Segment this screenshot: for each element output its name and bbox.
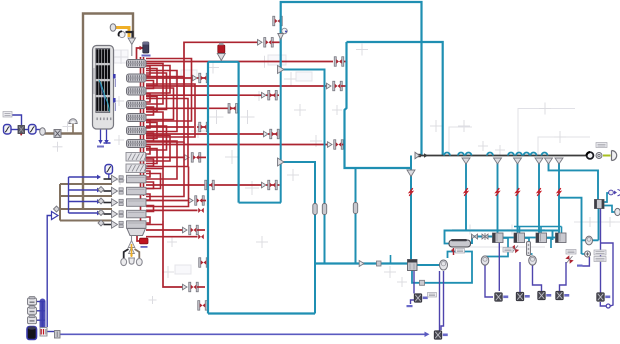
wire brown dome stem [72, 123, 74, 134]
wire teal drop e4 [538, 158, 540, 233]
wire red L8 [146, 129, 280, 139]
valve Z2 red on teal drop [464, 188, 468, 196]
wire red L7 [146, 122, 208, 132]
valve icon blue above rows [105, 165, 113, 175]
wire blue row 3 [69, 199, 102, 204]
wire purple blockE product [411, 271, 415, 305]
wire red navy block feed [137, 46, 144, 62]
wire teal main right loop [347, 42, 443, 155]
wire red L14 lower branch [163, 221, 205, 292]
hatched block H1 [126, 153, 148, 162]
wire teal riser mid segment [280, 70, 282, 203]
wire teal bus stubs [514, 227, 562, 234]
funnel into dark header [415, 152, 420, 158]
splitter block B1 [54, 130, 61, 138]
wire teal to plus pump [582, 253, 585, 255]
pump PU3 [529, 256, 537, 265]
feed mixer block [40, 328, 47, 337]
mixer block M1 [18, 126, 25, 136]
xblock recycle bottom [434, 331, 448, 340]
valve red on teal col2 y305 [198, 301, 208, 311]
label box ev4 [566, 250, 576, 255]
wire teal column2 left downcomer [207, 62, 209, 314]
wire teal main down [345, 42, 412, 168]
wire teal drop e3 [517, 158, 519, 233]
product teardrop 3 [136, 258, 142, 265]
red diagonal valve RD2 [565, 255, 573, 264]
wire red L12 [146, 196, 206, 206]
header coupling rings [596, 153, 602, 159]
wire purple evap1 recycle pair [440, 271, 444, 331]
controller bubble [282, 28, 288, 34]
wire blue manifold [68, 177, 70, 213]
wire teal ev4 feed elbow [552, 231, 554, 241]
product teardrop 2 [129, 258, 135, 264]
wire brown feed line [45, 132, 83, 134]
wire blue tank connections [36, 302, 46, 321]
wire teal drop e2 [497, 158, 499, 233]
funnel gray on riser top [278, 34, 284, 40]
xblock W4 [556, 291, 570, 300]
xblock W1 [495, 293, 509, 302]
diamond on brown header [54, 206, 60, 212]
exchanger FE far right [595, 200, 605, 209]
red pump block on teal header [217, 43, 225, 61]
relief dome D1 [69, 119, 77, 124]
wire teal evap bus [466, 230, 558, 232]
wire red stub bowtie 210 [146, 208, 204, 213]
wire teal block gap connectors [445, 238, 556, 244]
pump PU1 [440, 260, 448, 270]
wire blue top-left source link [10, 115, 22, 125]
evaporator EV3 [536, 233, 547, 243]
xblock W2 [516, 292, 530, 301]
evaporator EV1 [493, 233, 504, 243]
funnel teal 411 [407, 170, 415, 177]
xblock E product cooler [414, 294, 428, 303]
wire purple plus pump drop [583, 257, 590, 266]
wire brown bottoms split right [135, 249, 140, 258]
valve Z5 red on teal drop [537, 188, 541, 196]
wire red L4 [146, 90, 279, 100]
product teardrop 1 [121, 258, 127, 265]
block E preheater [408, 260, 418, 271]
bottoms splitter arrow [128, 241, 135, 258]
steam cylinder heater [449, 239, 471, 252]
reboiler red box [140, 238, 149, 248]
wire teal block-to-pump [417, 264, 440, 266]
feed tanks T1-T3 [28, 297, 37, 324]
wire black bottoms split left [124, 249, 129, 258]
wire teal column2 top header [208, 61, 239, 63]
wire red L11 [146, 180, 280, 190]
label box near blockE [428, 293, 437, 298]
oval far right [615, 208, 620, 215]
funnels below dark header [462, 158, 563, 164]
storage cylinder tank [27, 326, 37, 339]
valve bars on teal y185 [205, 180, 215, 190]
wire teal mid loop [282, 70, 325, 264]
wire brown row 1 [60, 183, 112, 185]
navy accumulator block [142, 42, 151, 57]
wire blue source train links [11, 129, 41, 131]
capsule coupling 315 [313, 204, 317, 215]
label box recirc [456, 249, 465, 254]
wire teal drop 355 [355, 168, 357, 264]
wire teal column2 right downcomer [238, 62, 240, 203]
wire red L6 with mid valve [146, 104, 238, 114]
wire teal drop far right [549, 158, 599, 200]
wire teal evap feed bottom [315, 255, 408, 267]
wire blue row 2 [69, 188, 102, 193]
small column after EV2 [527, 242, 531, 256]
wire purple w4 [533, 265, 542, 291]
wire red L2 to column2 [146, 73, 208, 83]
valve Z4 red on teal drop [516, 188, 520, 196]
wire red L1 block1 outlet long [137, 57, 347, 67]
wire blue row 4 [69, 211, 102, 216]
wire teal connector 315 lower [314, 264, 316, 314]
valve Z1 red on teal drop [409, 188, 413, 196]
wire teal fe block outlets [604, 193, 616, 212]
hatched block H2 [126, 164, 148, 173]
wire yellow condenser line [116, 28, 130, 38]
wire blue feed source header [40, 301, 46, 329]
valve red on teal top riser [273, 16, 283, 26]
valve Z6 red on teal drop [557, 188, 561, 196]
wire brown row 3 [60, 208, 112, 210]
reflux funnel [128, 38, 136, 56]
column sump trapezoid [127, 229, 146, 243]
valve V1 feed [4, 125, 12, 135]
label box far right 1 [594, 250, 606, 255]
wire purple w5 [560, 262, 567, 291]
valve Z3 red on teal drop [496, 188, 500, 196]
yellow-green link [603, 155, 611, 157]
wire brown distribution header [59, 184, 83, 221]
wire blue riser from bottom [47, 216, 51, 328]
wire brown recycle loop [83, 14, 133, 210]
wire red L13 [146, 225, 205, 235]
ghost placeholder elements [53, 44, 620, 305]
header pump dark [587, 152, 594, 159]
product sink D [612, 151, 617, 161]
wire purple w3 [519, 262, 521, 292]
xblock W3 [538, 291, 552, 300]
evaporator EV2 [514, 233, 525, 243]
wire blue long recycle bottom [60, 332, 430, 337]
label blue column stub 1 [97, 146, 104, 148]
funnel on teal riser [278, 66, 285, 74]
label box header product [596, 143, 607, 148]
label box ev1 [503, 248, 513, 253]
wire teal pump recirculation [412, 252, 472, 286]
wire red stub bowtie 237 [146, 234, 204, 239]
heat exchanger stack E1-E7 [127, 60, 147, 148]
wire brown row 2 [60, 195, 112, 197]
wire red L5 top branch [184, 38, 280, 96]
triangle vent bottom-left [52, 212, 59, 220]
condenser oval [110, 24, 116, 32]
capsule coupling 324 [322, 204, 326, 215]
wire purple w6 far right [600, 208, 602, 293]
wire blue column bottoms stubs [98, 129, 108, 144]
wire teal cylinder out [470, 237, 493, 244]
row mixers funnels [98, 175, 123, 228]
wire red exchanger weave [141, 57, 196, 232]
valve V2 [29, 125, 37, 135]
wire blue row 1 [69, 175, 102, 180]
label purple small [577, 265, 583, 267]
sink icon far right [609, 190, 620, 196]
reflux pump [119, 31, 126, 37]
wire blue mixer outlet [47, 332, 59, 335]
wire teal cross link y202 [239, 202, 281, 204]
wire red L3 long to teal main [146, 81, 346, 91]
distillation column C1 with profile plot [93, 46, 117, 130]
wire blue valve icon feed row1 [109, 174, 111, 180]
wire yellow reboiler drop [130, 243, 132, 256]
wire teal ev interconnects [485, 238, 551, 257]
wire teal branch y162 [281, 162, 315, 264]
wire purple w2 [485, 243, 499, 297]
lower contactor blocks S1-S5 [127, 175, 147, 228]
wire red sump to reboiler box [137, 236, 140, 241]
pump PU2 [481, 256, 489, 265]
wire teal dark header [418, 153, 589, 157]
xblock W5 far right [597, 293, 611, 302]
pump PU4 [586, 236, 593, 245]
wire teal drop e5 with jog [559, 158, 582, 255]
label box top-left [3, 112, 12, 118]
funnel teal mid [278, 158, 285, 166]
red diagonal valve RD1 [511, 245, 519, 254]
small block right of mixer [55, 331, 61, 339]
valve red on teal col2 y262 [199, 258, 209, 268]
capsule coupling 355 [353, 203, 357, 214]
label blue column stub 2 [104, 142, 111, 144]
wire red L9 long to teal main [146, 140, 345, 150]
wire teal drop 411 to preheater [410, 156, 412, 260]
valve small a [472, 234, 478, 239]
wire teal hoop crossings [444, 153, 548, 156]
wire teal fe drop [582, 208, 599, 241]
wire teal drop e1 [445, 158, 467, 241]
knockout oval O1 [40, 128, 46, 136]
wire teal red tick on recirc [453, 248, 455, 255]
wire teal bottom run to evap [208, 312, 315, 314]
evaporator EV4 [556, 233, 567, 243]
label blue blockE product [407, 305, 413, 307]
label box far right 2 [594, 257, 606, 262]
wire brown row 4 [60, 220, 112, 222]
wire purple xblock recycle loop [600, 243, 613, 308]
plus pump bubble [585, 251, 591, 257]
wire teal riser top loop [281, 2, 422, 155]
wire red L10 [146, 153, 206, 163]
wire black pump line [126, 32, 133, 38]
valve small b [482, 233, 488, 240]
